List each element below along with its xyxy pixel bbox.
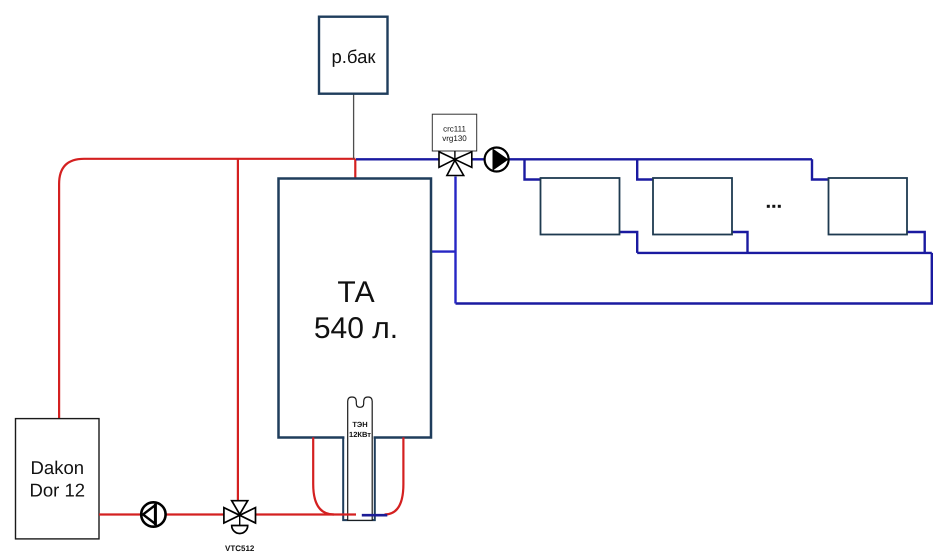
wire: blue branch to radiator 3 xyxy=(812,159,829,179)
radiator 1 xyxy=(541,178,620,235)
wire: gray pipe from expansion tank to red line xyxy=(353,94,355,159)
label: ellipsis more radiators xyxy=(767,205,781,208)
wire: blue branch to radiator 2 xyxy=(637,159,653,179)
expansion tank р.бак xyxy=(319,17,388,94)
wire: red check valve to VTC512 xyxy=(166,513,224,515)
radiator 2 xyxy=(653,178,732,235)
wire: blue branch to radiator 1 xyxy=(525,159,541,179)
svg-text:р.бак: р.бак xyxy=(332,46,377,67)
wire: red drop into tank top xyxy=(354,159,356,179)
three-way mixing valve under crc111 xyxy=(439,151,472,176)
wire: blue supply main from pump to last branch xyxy=(509,158,813,160)
controller box crc111 vrg130 xyxy=(432,114,476,151)
wire: blue return riser to crc valve xyxy=(454,177,456,304)
wire: red from VTC512 valve to heater xyxy=(256,513,356,515)
svg-text:vrg130: vrg130 xyxy=(442,134,467,143)
radiator 3 xyxy=(829,178,908,235)
wire: blue return from radiator 2 xyxy=(732,232,748,253)
wire: blue return from radiator 1 xyxy=(620,232,638,253)
heating element ТЭН 12КВт xyxy=(348,397,373,520)
svg-text:540 л.: 540 л. xyxy=(314,312,398,345)
heater well walls below tank xyxy=(343,437,375,520)
three-way valve VTC512 xyxy=(224,501,256,553)
svg-text:12КВт: 12КВт xyxy=(349,430,371,439)
check valve (boiler pump) xyxy=(141,502,165,526)
svg-text:Dakon: Dakon xyxy=(31,457,84,478)
wire: red Dakon to check valve xyxy=(99,513,141,515)
svg-text:Dor 12: Dor 12 xyxy=(30,479,86,500)
node: tank bottom opening (gap for heater well) xyxy=(344,433,373,442)
svg-text:crc111: crc111 xyxy=(443,125,466,134)
wire: red right U-pipe under tank xyxy=(385,437,404,514)
wire: blue stub at heater bottom xyxy=(362,514,388,517)
wire: red drop to VTC512 valve xyxy=(237,159,239,500)
svg-text:ТА: ТА xyxy=(337,276,374,309)
svg-text:ТЭН: ТЭН xyxy=(352,420,367,429)
storage tank ТА 540 л. xyxy=(279,179,432,438)
boiler Dakon Dor 12 xyxy=(16,419,100,539)
wire: blue return middle main xyxy=(637,252,932,254)
wire: blue supply, red/blue junction to crc valve xyxy=(356,158,439,160)
wire: red left U-pipe under tank xyxy=(313,437,334,514)
wire: blue connection tank to return riser xyxy=(431,250,456,252)
circulation pump xyxy=(485,148,509,172)
wire: blue return right drop and bottom main xyxy=(456,253,932,304)
wire: red boiler supply from Dakon up and across to tank xyxy=(59,159,355,419)
svg-text:VTC512: VTC512 xyxy=(225,544,255,553)
wire: blue return from radiator 3 xyxy=(907,232,925,253)
wire: blue, crc valve to pump xyxy=(472,158,485,160)
